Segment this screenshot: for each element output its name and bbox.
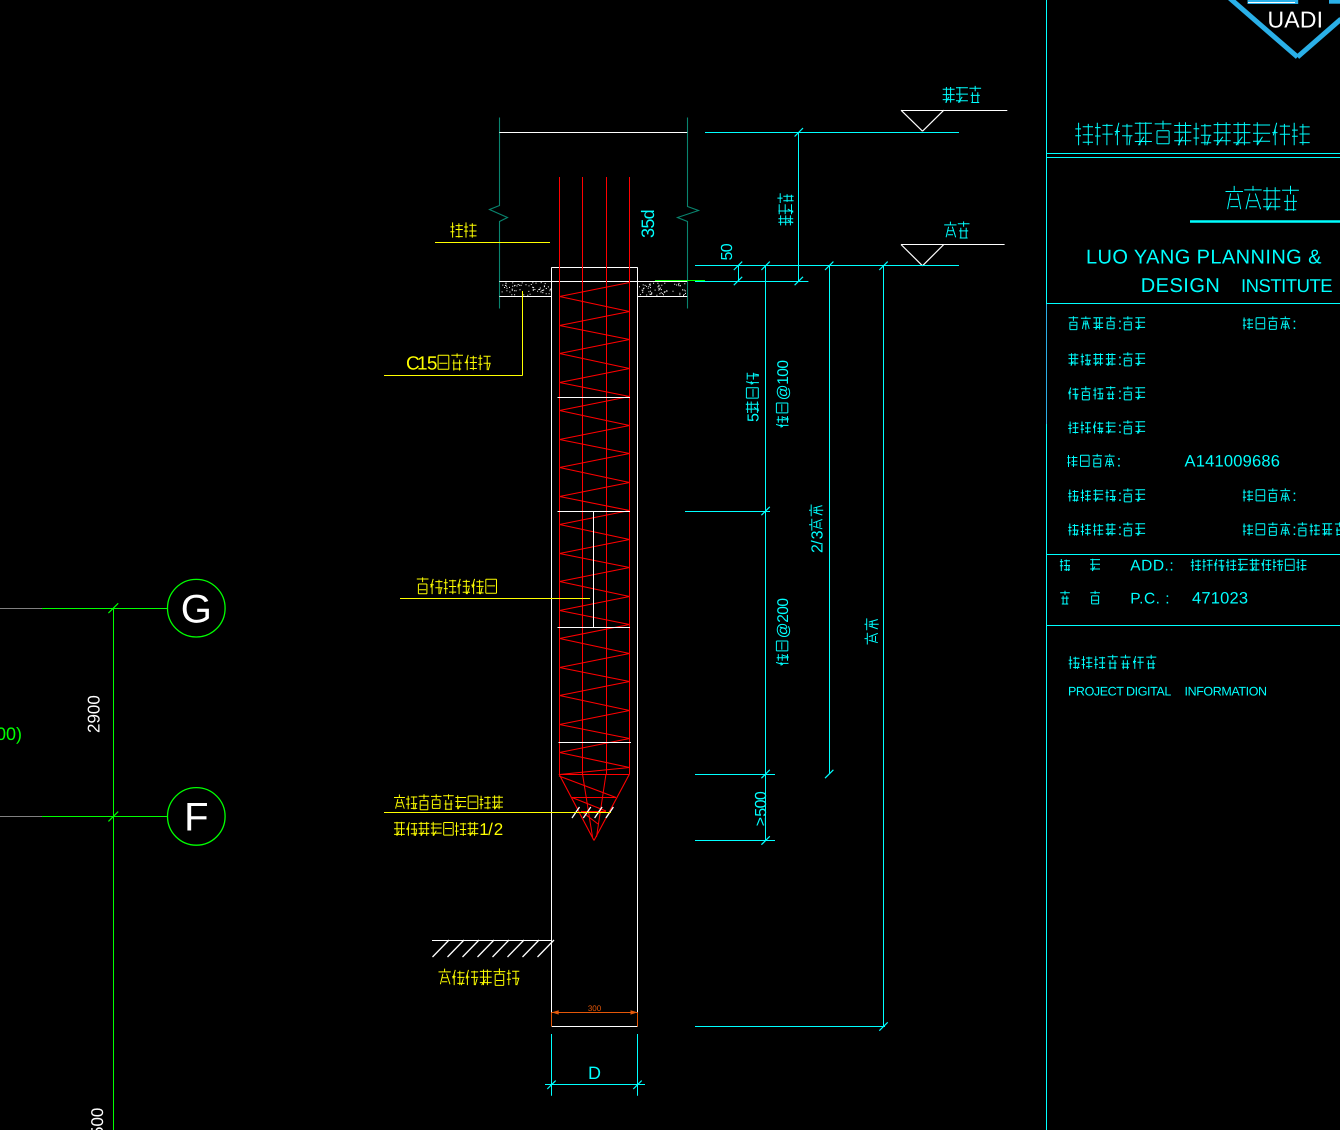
row 地址 [1060,558,1307,575]
label C15素砼垫层 with leader [384,291,523,376]
dim 基础高 vertical [777,132,803,285]
dimension text 2900 [85,695,104,733]
svg-text:/: / [809,540,826,545]
logo bar white stripe [1248,2,1295,4]
svg-text:G: G [181,588,212,632]
dim 35d [638,209,658,238]
axis bubble G [168,579,226,637]
grid axis F horizontal line (green) [42,816,168,818]
svg-text::: : [1118,488,1122,505]
svg-text:/: / [488,820,493,839]
svg-text:00): 00) [0,724,22,744]
spiral stirrup zigzag [560,283,630,775]
svg-text::: : [1292,316,1296,333]
bent rebar tick marks [572,807,613,818]
bedding bottom line left [499,296,551,298]
row 证书编号:甲测资字 [1243,524,1253,536]
row 证书编号: A141009686 [1067,453,1280,471]
logo V right arm [1298,19,1340,57]
titleblock rule 2 [1046,554,1340,556]
bedding interface line [499,281,687,283]
logo bar left [1248,0,1299,4]
logo bar right corner [1329,0,1340,4]
dim 箍筋@200 label [775,598,792,666]
svg-text:PROJECT: PROJECT [1068,685,1124,699]
svg-text::: : [1118,522,1122,539]
title block left border cyan lower [1046,424,1048,1130]
svg-text:INSTITUTE: INSTITUTE [1241,275,1332,296]
main rebar (4 red bars) [560,177,630,774]
bedding speckle hatch [502,283,686,296]
pile cap right edge with break [678,118,699,309]
label 桩尖处弯折主筋数量 two lines with leader [384,794,611,839]
svg-text:UADI: UADI [1268,7,1324,33]
svg-text:INFORMATION: INFORMATION [1185,685,1268,699]
row 证书编号: top [1243,318,1253,330]
pile tip cone [559,774,630,841]
svg-text:5: 5 [745,413,762,422]
svg-text::: : [1118,386,1122,403]
dim tick line 2/3 level [685,507,770,515]
svg-text:0: 0 [719,243,736,252]
row 证书编号: mid [1243,490,1253,502]
titleblock rule 3 [1046,625,1340,627]
svg-text:0: 0 [753,791,770,800]
svg-text:2: 2 [494,820,503,839]
dim tick line cone top level [695,770,775,778]
title 有限公司 [1226,186,1244,209]
svg-text::: : [1118,420,1122,437]
svg-text:DIGITAL: DIGITAL [1126,685,1171,699]
svg-text:A141009686: A141009686 [1185,453,1281,471]
grid tick at axis F [108,812,118,822]
axis bubble F [168,788,226,846]
svg-text::: : [1118,352,1122,369]
svg-text:0: 0 [775,360,792,369]
row 工程数字化信息 [1069,656,1080,669]
dim 50 [695,243,808,285]
svg-text:0: 0 [775,598,792,607]
logo V left arm [1230,0,1298,57]
svg-text:5: 5 [427,353,438,374]
row 城乡规划:甲级 [1069,316,1079,329]
titleblock rule 1 [1046,303,1340,305]
row PROJECT DIGITAL INFORMATION [1068,685,1267,699]
pile cap top line [499,132,687,134]
grid axis G horizontal line (green) [42,608,168,610]
title 洛阳市规划建筑设计研究院 [1075,123,1093,145]
dim line foundation top level [705,132,959,134]
row 市政桥梁:甲级 [1068,388,1078,400]
dim 桩长 vertical [865,266,888,1031]
svg-text:471023: 471023 [1192,590,1248,608]
bearing stratum ground line [432,940,554,957]
grid axis G horizontal line (gray tail) [0,608,42,610]
dim >=500 [695,791,775,845]
svg-text::: : [1292,488,1296,505]
dimension D at pile bottom [545,1034,645,1096]
cap label 承台 [435,222,550,242]
pile cap left edge with break [490,118,508,309]
title DESIGN INSTITUTE [1141,275,1333,297]
green marker line at bedding [655,280,705,282]
svg-text::: : [1292,522,1296,539]
grid tick at axis G [108,603,118,613]
title block left border cyan upper [1046,0,1048,304]
svg-text:d: d [638,209,658,219]
row 邮编 [1060,590,1248,608]
svg-text:2900: 2900 [85,695,104,733]
svg-text:LUO YANG PLANNING &: LUO YANG PLANNING & [1086,247,1322,269]
label 桩进入持力层 [439,969,451,985]
stiffening stirrup marker [593,511,595,628]
grid vertical line [113,608,115,1130]
elevation symbol 桩顶 [901,221,1005,265]
dim 5倍直径 箍筋@100 vertical [745,266,792,841]
pile outline [552,267,638,1026]
svg-text:ADD.:: ADD.: [1130,558,1174,575]
svg-text:3: 3 [809,530,826,539]
rule under 有限公司 [1190,220,1340,223]
stirrup zone boundary white lines [558,398,632,743]
svg-text:500: 500 [88,1108,107,1130]
svg-text::: : [1117,453,1121,470]
grid axis F horizontal line (gray tail) [0,816,42,818]
row 工程测量:甲级 [1068,524,1078,536]
row 工程勘察:甲级 [1068,490,1078,502]
svg-text:@: @ [775,622,792,638]
row 建筑设计:甲级 [1069,353,1079,365]
title double rule [1046,154,1340,158]
svg-text:300: 300 [588,1004,602,1013]
svg-text::: : [1118,316,1122,333]
svg-text:F: F [184,796,208,840]
dim line pile bottom level [695,1026,885,1028]
svg-text:@: @ [775,384,792,400]
dimension text 500 clipped [88,1108,107,1130]
svg-text:DESIGN: DESIGN [1141,275,1221,297]
label 加劲焊接箍筋 with leader [400,577,590,598]
bedding bottom line right [638,296,688,298]
dim 2/3桩长 vertical [809,266,833,778]
svg-text:≥: ≥ [753,817,770,826]
svg-text:D: D [588,1063,601,1083]
row 风景园林:甲级 [1068,422,1078,434]
svg-text:P.C. :: P.C. : [1130,591,1170,608]
elevation symbol 基础顶 [901,86,1007,131]
dimension 300 at pile toe [552,1004,638,1027]
dim line pile top level [695,262,959,270]
title block left border blue middle [1046,304,1048,424]
